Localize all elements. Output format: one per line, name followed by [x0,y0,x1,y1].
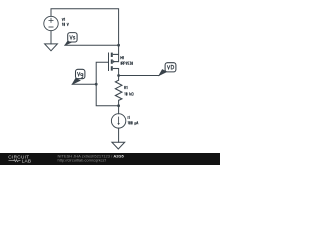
voltage source V1 [44,16,58,30]
junction node Vs on source rail [117,44,120,47]
junction node VD at drain / R1 top [117,74,120,77]
CircuitLab logo [8,155,31,164]
wire Vg flag stub [72,83,96,85]
node flag Vs [65,33,77,46]
bulk lead [113,61,119,63]
label M1 part "IRF9530" [121,62,133,65]
watermark text [58,153,125,162]
resistor R1 [115,80,122,100]
wire gate to Vg node [96,62,118,105]
channel segments [111,53,113,57]
wire top rail: V1 top to MOSFET source [51,9,119,62]
wire V1 bottom to ground [50,31,52,44]
node flag Vg [72,69,85,84]
transistor M1 (PMOS IRF9530) [109,53,119,72]
label I1 name "I1" [128,116,129,119]
ground (I1) [112,142,125,149]
svg-text:LAB: LAB [22,159,32,164]
I1 current arrow head [117,123,119,125]
label I1 value "100 uA" [128,121,138,125]
current source I1 [111,114,125,128]
wire Vs flag to right rail [65,44,119,46]
watermark bar [0,153,220,165]
V1 body circle [44,16,58,30]
wire junction to VD flag [119,75,159,77]
label M1 name "M1" [121,56,124,59]
svg-text:http://circuitlab.com/cqrkczf: http://circuitlab.com/cqrkczf [58,158,107,163]
label R1 value "10 kOhm" [125,92,134,95]
label R1 name "R1" [125,86,128,89]
bulk arrow (PMOS points away from channel) [113,60,116,63]
junction node Vg on gate wire [95,83,98,86]
wire R1 bottom to I1 top [118,100,120,114]
ground (V1) [45,44,58,51]
label V1 value "10 V" [62,23,68,26]
node flag VD [159,63,176,76]
V1 minus polarity mark [49,26,54,28]
label V1 name "V1" [62,18,65,21]
wire I1 bottom to ground [118,128,120,142]
junction node R1 bottom / I1 top / gate feedback [117,104,120,107]
wire drain down to junction [118,69,120,81]
V1 plus polarity mark [50,18,52,23]
source lead [113,53,119,55]
drain lead [113,68,119,70]
gate bar [108,53,110,72]
